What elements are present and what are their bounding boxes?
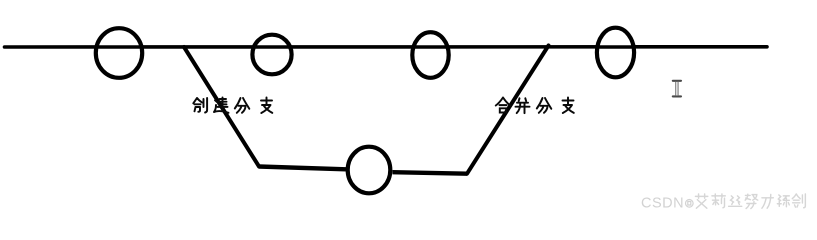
label text: 建	[214, 98, 229, 113]
label text: 支 (left)	[261, 98, 272, 114]
node: commit circle 1	[96, 28, 142, 78]
watermark text: 努	[745, 194, 758, 208]
watermark text: 力	[762, 194, 773, 208]
watermark text: 艾	[695, 194, 707, 208]
wire: main line visible through circle 3	[413, 45, 448, 48]
watermark text: 丝	[729, 196, 742, 206]
wire: branch left diagonal (create branch)	[184, 47, 259, 167]
watermark text: 莉	[712, 194, 725, 208]
wire: main line visible through circle 2	[253, 45, 291, 48]
svg-text:CSDN: CSDN	[641, 196, 684, 212]
wire: branch right diagonal (merge branch)	[467, 46, 549, 174]
watermark text: 剑	[792, 194, 805, 208]
label text: 并	[516, 98, 530, 113]
node: commit circle 3	[412, 32, 448, 78]
cursor: I-beam text cursor	[673, 81, 681, 97]
label text: 合 (merge)	[496, 98, 511, 113]
wire: master branch main horizontal line	[5, 45, 768, 49]
label text: 支 (right)	[563, 98, 574, 114]
wire: branch lower-right horizontal	[393, 172, 468, 174]
watermark: circled logo	[686, 200, 694, 208]
wire: main line visible through circle 1	[96, 45, 142, 48]
node: branch commit circle (lower)	[348, 147, 391, 194]
node: commit circle 2	[252, 35, 291, 75]
label text: 创 (create)	[193, 98, 207, 113]
label text: 分 (left)	[235, 98, 250, 113]
node: commit circle 4	[597, 28, 634, 78]
wire: branch lower-left horizontal	[259, 167, 346, 170]
label text: 分 (right)	[537, 98, 552, 113]
wire: main line visible through circle 4	[598, 45, 634, 48]
watermark text: 练	[777, 195, 789, 207]
